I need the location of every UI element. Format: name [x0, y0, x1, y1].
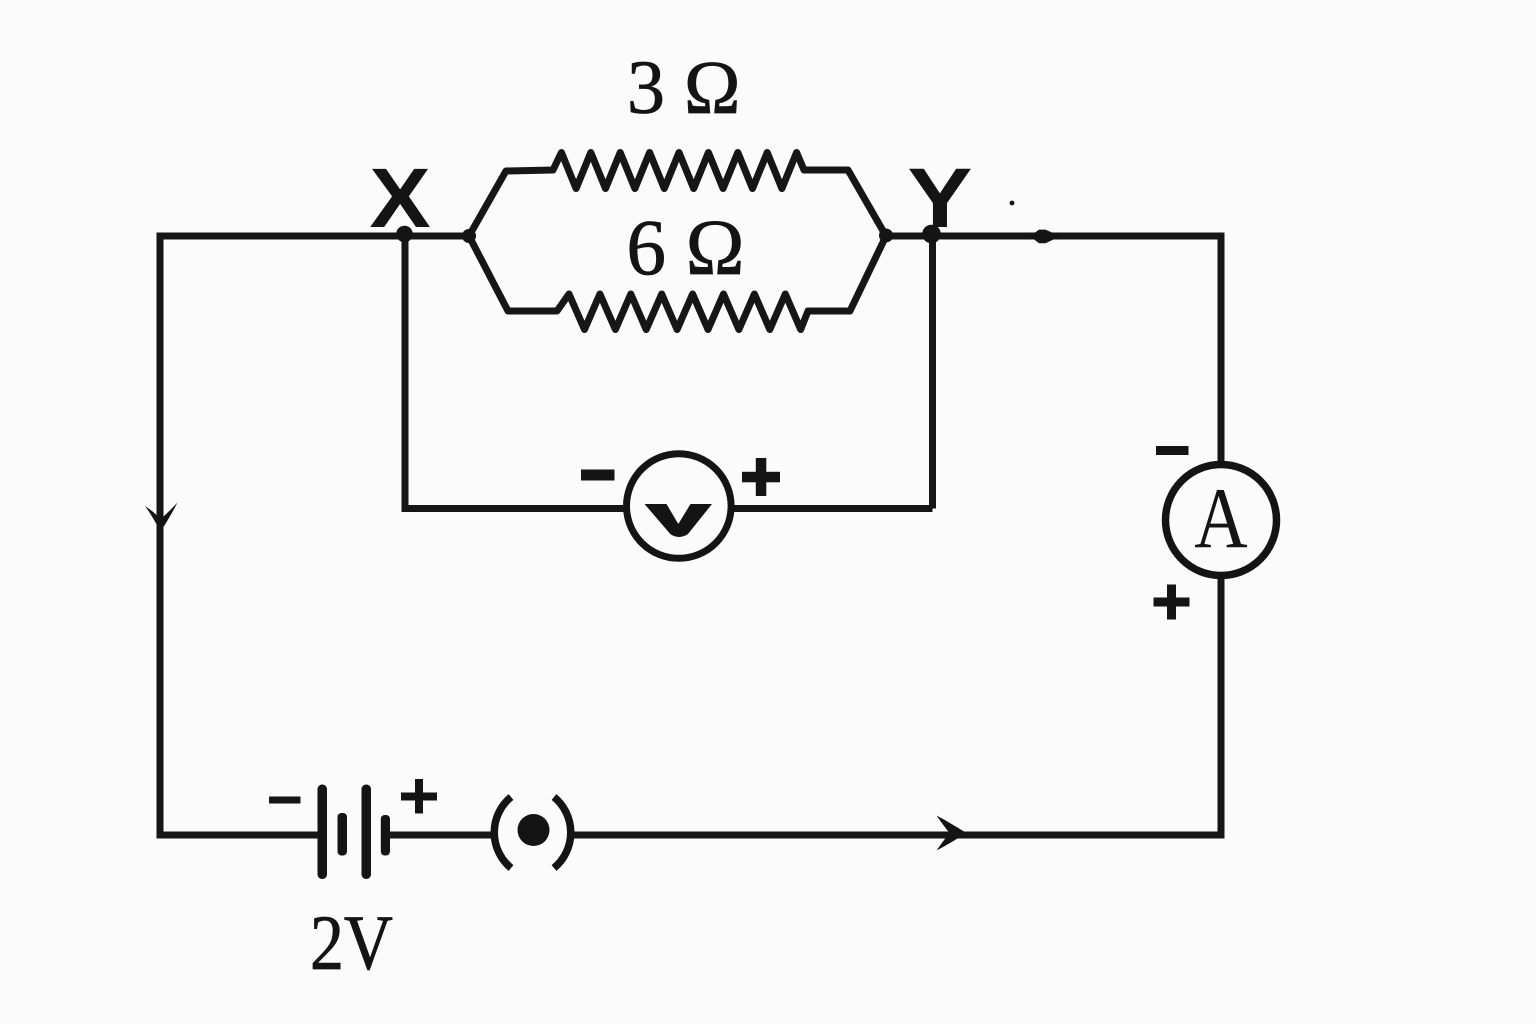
svg-text:2V: 2V	[310, 900, 393, 986]
wire voltmeter branch left vertical from X	[402, 236, 409, 509]
wire bottom from corner to battery	[160, 832, 319, 839]
switch S1 right contact arc	[554, 797, 571, 868]
wire left vertical	[157, 233, 164, 839]
resistor R1 3ohm top branch	[469, 153, 886, 237]
wire top-left from corner to node X	[160, 233, 469, 240]
voltmeter V1 circle	[627, 454, 732, 559]
wire battery to switch	[389, 832, 493, 839]
ammeter minus sign	[1156, 446, 1189, 455]
svg-text:A: A	[1194, 471, 1247, 567]
battery plate 2 (short)	[338, 813, 348, 856]
battery 2V plate 1 (tall, negative side)	[318, 785, 328, 880]
wire right vertical upper (Y corner to ammeter)	[1218, 236, 1225, 463]
wire voltmeter branch right vertical to Y	[929, 236, 936, 509]
wire switch to bottom-right corner	[573, 832, 1225, 839]
junction dot at X	[396, 226, 413, 243]
wire voltmeter branch bottom-left horizontal	[402, 505, 627, 512]
battery minus sign	[269, 797, 301, 804]
junction dot resistor right vertex	[879, 229, 893, 243]
switch S1 left contact arc	[494, 797, 511, 868]
current arrow on bottom wire (right)	[937, 816, 967, 851]
switch S1 plug dot	[518, 814, 550, 846]
junction dot at Y	[922, 225, 941, 244]
stray small dot	[1010, 201, 1015, 206]
battery plate 4 (short, positive side)	[381, 815, 390, 856]
ammeter A1 circle	[1166, 465, 1277, 576]
battery plate 3 (tall)	[362, 785, 372, 880]
svg-text:3 Ω: 3 Ω	[627, 46, 740, 130]
junction dot resistor left vertex	[462, 229, 476, 243]
wire top-right from node Y to right corner	[886, 233, 1225, 240]
current arrow on top-right wire (diamond)	[1030, 230, 1061, 244]
resistor R2 6ohm bottom branch	[469, 236, 886, 330]
voltmeter minus sign	[581, 470, 615, 481]
svg-text:6 Ω: 6 Ω	[627, 205, 745, 292]
voltmeter plus sign	[742, 458, 780, 496]
ammeter plus sign	[1154, 585, 1190, 620]
battery plus sign	[401, 779, 437, 814]
current arrow on left wire (down)	[145, 503, 178, 532]
voltmeter V glyph	[645, 504, 713, 537]
wire right vertical lower (ammeter to bottom corner)	[1218, 577, 1225, 839]
wire voltmeter branch bottom-right horizontal	[731, 505, 933, 512]
